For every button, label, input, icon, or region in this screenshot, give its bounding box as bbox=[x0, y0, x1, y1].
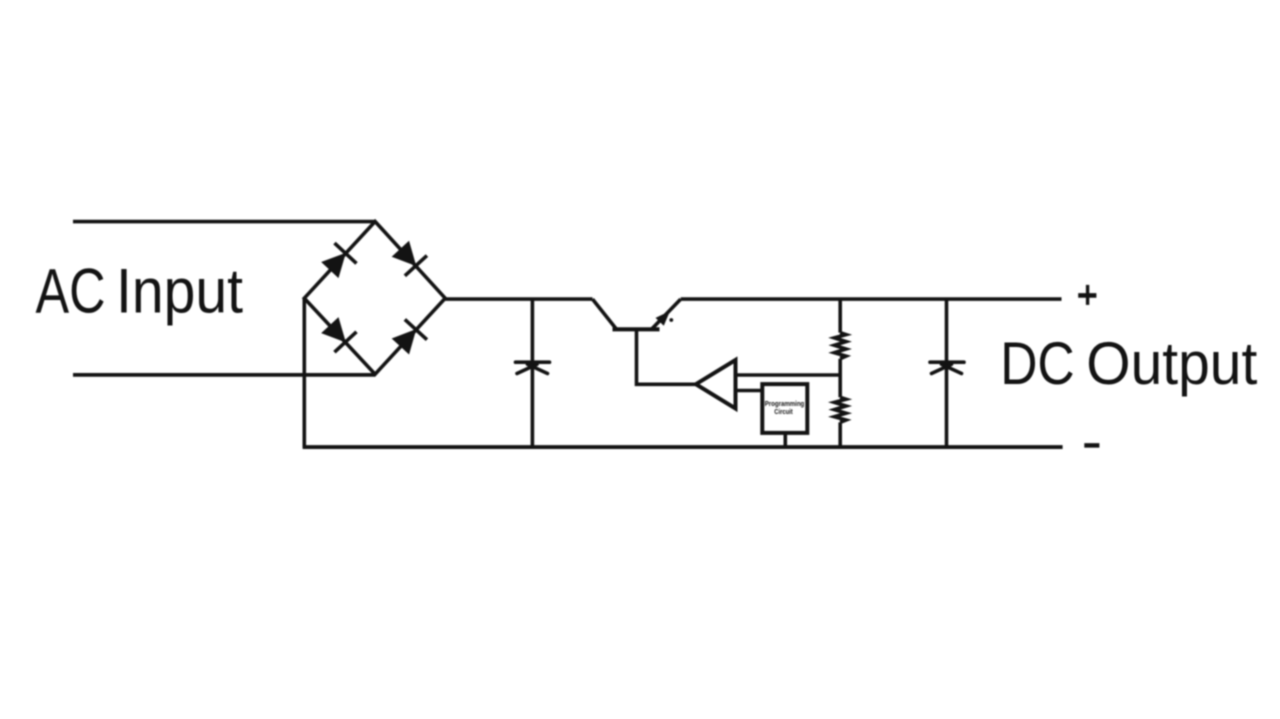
svg-text:DC: DC bbox=[1000, 329, 1074, 397]
svg-text:AC: AC bbox=[36, 257, 106, 327]
svg-text:Output: Output bbox=[1086, 329, 1257, 397]
svg-text:Circuit: Circuit bbox=[774, 407, 793, 416]
svg-text:Input: Input bbox=[116, 257, 243, 327]
